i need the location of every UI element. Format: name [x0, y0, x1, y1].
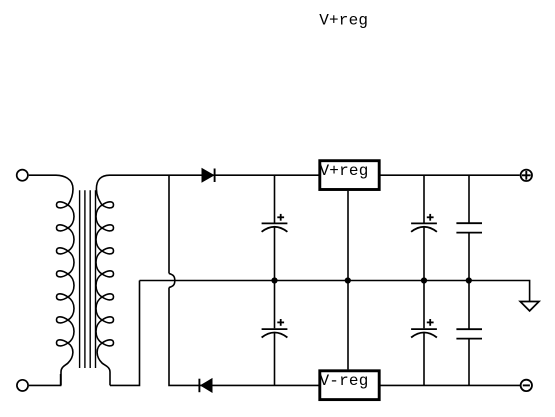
regulator U1 V+reg	[320, 161, 380, 190]
terminal -V output	[521, 380, 532, 391]
wire	[29, 174, 56, 176]
diode D2	[199, 379, 212, 393]
wire hop over centre rail	[169, 274, 175, 288]
regulator U2 V-reg	[320, 371, 380, 400]
wire	[169, 288, 520, 386]
svg-text:V-reg: V-reg	[320, 372, 369, 390]
terminal +V output	[521, 170, 532, 181]
svg-text:V+reg: V+reg	[319, 12, 368, 30]
transformer T1 primary winding	[56, 175, 74, 385]
wire (top rail)	[110, 174, 520, 176]
capacitor C2 (polarized, top mid)	[411, 175, 437, 280]
wire (centre rail to ground)	[140, 281, 530, 302]
junction (C1/C4 centre rail)	[271, 277, 277, 283]
wire (vertical feed top rail to bottom rail with hop)	[168, 175, 170, 273]
transformer T1 core	[80, 190, 96, 368]
junction (C3/C6 centre rail)	[466, 277, 472, 283]
capacitor C1 (polarized, top left)	[262, 175, 288, 280]
wire (secondary bottom tap to centre rail riser)	[110, 281, 140, 386]
transformer T1 secondary winding	[96, 175, 114, 385]
capacitor C4 (polarized, bottom left)	[262, 281, 288, 386]
capacitor C6 (bottom right)	[456, 281, 482, 386]
wire (V+reg to centre rail)	[347, 191, 349, 281]
wire	[29, 374, 61, 385]
ground	[520, 302, 539, 311]
junction (C2/C5 centre rail)	[421, 277, 427, 283]
junction (regulators centre rail)	[345, 277, 351, 283]
terminal J2 (AC input bottom)	[17, 380, 28, 391]
capacitor C5 (polarized, bottom mid)	[411, 281, 437, 386]
terminal J1 (AC input top)	[17, 170, 28, 181]
wire (centre rail to V-reg)	[347, 281, 349, 370]
svg-text:V+reg: V+reg	[320, 162, 369, 180]
diode D1	[202, 169, 215, 183]
capacitor C3 (top right)	[456, 175, 482, 280]
